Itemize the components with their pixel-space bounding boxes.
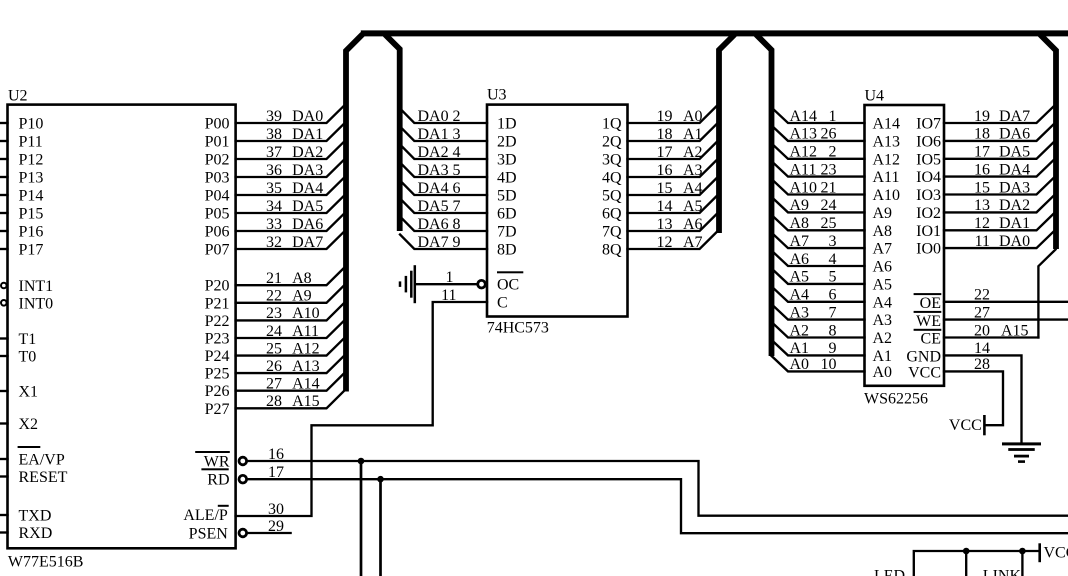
svg-text:A8: A8 (873, 223, 893, 240)
svg-text:28: 28 (266, 393, 282, 410)
svg-text:13: 13 (657, 216, 673, 233)
svg-text:WE: WE (916, 313, 941, 330)
svg-text:P27: P27 (205, 401, 230, 418)
svg-text:A4: A4 (683, 180, 703, 197)
U3 pin 1D / net DA0 from bus, pin 2 (400, 108, 517, 133)
U3 pin 2Q / net A1 wire to bus, pin 18 (602, 124, 717, 150)
svg-text:IO3: IO3 (916, 187, 941, 204)
svg-text:C: C (497, 295, 508, 312)
U2 pin P16 (0, 224, 43, 241)
svg-text:27: 27 (974, 304, 990, 321)
svg-text:1: 1 (446, 269, 454, 286)
svg-text:EA/VP: EA/VP (19, 452, 65, 469)
ground symbol at U3 OC (sideways) (399, 265, 416, 303)
svg-text:T0: T0 (19, 349, 37, 366)
svg-text:P10: P10 (19, 116, 44, 133)
U2 pin P00 / net DA0 wire to bus, pin 39 (205, 106, 344, 133)
U3 pin 7D / net DA6 from bus, pin 8 (400, 216, 517, 241)
svg-text:26: 26 (821, 126, 837, 143)
U4 pin IO7 / net DA7 wire to bus, pin 19 (916, 107, 1053, 133)
svg-text:A3: A3 (683, 162, 703, 179)
U4 pin CE (pin 20) / net A15 from data-bus drop (914, 322, 1039, 347)
U3 pin 8D / net DA7 from bus, pin 9 (400, 234, 517, 259)
svg-text:20: 20 (974, 322, 990, 339)
svg-text:P14: P14 (19, 188, 44, 205)
wire bus vertical right (DA bus into U3 inputs) (385, 34, 400, 231)
U3 pin 5Q / net A4 wire to bus, pin 15 (602, 178, 717, 204)
svg-text:RESET: RESET (19, 469, 68, 486)
svg-text:2Q: 2Q (602, 134, 622, 151)
svg-text:18: 18 (974, 126, 990, 143)
svg-text:3D: 3D (497, 152, 517, 169)
svg-text:A3: A3 (873, 312, 893, 329)
svg-text:23: 23 (266, 305, 282, 322)
wire bus vertical right of U3 outputs (719, 34, 735, 233)
svg-text:17: 17 (974, 144, 990, 161)
svg-text:A7: A7 (790, 233, 810, 250)
power VCC symbol bottom right (1038, 543, 1068, 562)
svg-text:PSEN: PSEN (189, 526, 229, 543)
svg-text:19: 19 (657, 108, 673, 125)
svg-text:1Q: 1Q (602, 116, 622, 133)
svg-text:A12: A12 (790, 144, 818, 161)
svg-text:VCC: VCC (908, 364, 941, 381)
svg-text:DA5: DA5 (418, 198, 449, 215)
mcu U2 W77E516B body (8, 88, 236, 571)
U3 pin 4Q / net A3 wire to bus, pin 16 (602, 160, 717, 186)
U3 pin 6Q / net A5 wire to bus, pin 14 (602, 196, 717, 222)
svg-text:X1: X1 (19, 384, 39, 401)
svg-text:28: 28 (974, 356, 990, 373)
svg-text:4D: 4D (497, 170, 517, 187)
U4 pin A8 from bus, pin 25 (772, 215, 893, 240)
svg-text:18: 18 (657, 126, 673, 143)
U2 pin P22 / net A10 wire to bus, pin 23 (205, 303, 344, 330)
svg-text:DA7: DA7 (999, 108, 1030, 125)
svg-text:P02: P02 (205, 152, 230, 169)
U4 pin IO3 / net DA3 wire to bus, pin 15 (916, 178, 1053, 204)
svg-text:DA2: DA2 (999, 197, 1030, 214)
U2 pin X2 (0, 416, 38, 433)
svg-text:DA6: DA6 (292, 216, 323, 233)
U4 pin A1 from bus, pin 9 (772, 340, 893, 365)
wire VCC rail for LED/LINK circuit (914, 551, 1039, 576)
svg-text:DA4: DA4 (418, 180, 449, 197)
U3 pin C (pin 11) label (497, 295, 508, 312)
svg-text:DA1: DA1 (292, 126, 323, 143)
U4 pin A7 from bus, pin 3 (772, 233, 893, 258)
U4 pin A14 from bus, pin 1 (772, 108, 901, 133)
svg-text:P07: P07 (205, 242, 230, 259)
U3 pin 3D / net DA2 from bus, pin 4 (400, 144, 517, 169)
svg-text:7: 7 (453, 198, 461, 215)
svg-text:P21: P21 (205, 295, 230, 312)
svg-text:5Q: 5Q (602, 188, 622, 205)
U2 pin P06 / net DA6 wire to bus, pin 33 (205, 214, 344, 241)
svg-text:A7: A7 (873, 241, 893, 258)
wire bus top horizontal (361, 30, 1068, 36)
U3 pin 4D / net DA3 from bus, pin 5 (400, 162, 517, 187)
svg-text:38: 38 (266, 126, 282, 143)
svg-text:A8: A8 (790, 215, 810, 232)
label LED (874, 568, 905, 576)
U2 pin P21 / net A9 wire to bus, pin 22 (205, 286, 344, 313)
svg-text:16: 16 (974, 161, 990, 178)
U4 pin A9 from bus, pin 24 (772, 197, 893, 222)
U2 pin P10 (0, 116, 43, 133)
U3 pin 6D / net DA5 from bus, pin 7 (400, 198, 517, 223)
U4 pin IO0 / net DA0 wire to bus, pin 11 (916, 232, 1053, 258)
junction on RD net (377, 476, 384, 576)
svg-text:8Q: 8Q (602, 242, 622, 259)
U3 pin 5D / net DA4 from bus, pin 6 (400, 180, 517, 205)
svg-text:P22: P22 (205, 313, 230, 330)
svg-text:IO5: IO5 (916, 151, 941, 168)
svg-text:IO0: IO0 (916, 241, 941, 258)
svg-text:12: 12 (657, 234, 673, 251)
U2 pin P25 / net A13 wire to bus, pin 26 (205, 356, 344, 383)
svg-text:A5: A5 (683, 198, 703, 215)
U2 pin RESET (0, 469, 68, 486)
U2 pin P20 / net A8 wire to bus, pin 21 (205, 268, 344, 295)
U2 pin P03 / net DA3 wire to bus, pin 36 (205, 160, 344, 187)
svg-text:21: 21 (821, 179, 837, 196)
U4 pin OE (pin 22) wire to right edge (914, 287, 1068, 312)
label LINK (983, 568, 1022, 576)
svg-text:OC: OC (497, 277, 519, 294)
U4 pin IO2 / net DA2 wire to bus, pin 13 (916, 196, 1053, 222)
svg-text:39: 39 (266, 108, 282, 125)
svg-text:A15: A15 (1001, 322, 1029, 339)
svg-text:30: 30 (268, 501, 284, 518)
U3 pin 2D / net DA1 from bus, pin 3 (400, 126, 517, 151)
svg-text:27: 27 (266, 376, 282, 393)
U2 pin T0 (0, 349, 36, 366)
U2 pin P27 / net A15 wire to bus, pin 28 (205, 391, 344, 418)
svg-text:32: 32 (266, 234, 282, 251)
svg-text:11: 11 (975, 233, 990, 250)
power VCC symbol at U4 pin 28 (949, 415, 986, 435)
svg-text:9: 9 (453, 234, 461, 251)
svg-text:INT0: INT0 (19, 295, 54, 312)
U4 pin GND (pin 14) wire to ground (906, 340, 1021, 443)
svg-text:P15: P15 (19, 206, 44, 223)
svg-text:IO4: IO4 (916, 169, 941, 186)
svg-text:15: 15 (657, 180, 673, 197)
svg-text:7Q: 7Q (602, 224, 622, 241)
svg-text:DA2: DA2 (292, 144, 323, 161)
U4 pin A12 from bus, pin 2 (772, 143, 901, 168)
svg-text:A10: A10 (790, 179, 818, 196)
svg-text:5: 5 (453, 162, 461, 179)
svg-text:A3: A3 (790, 304, 810, 321)
svg-text:A1: A1 (873, 348, 893, 365)
svg-text:22: 22 (974, 287, 990, 304)
svg-text:DA4: DA4 (999, 161, 1030, 178)
svg-text:T1: T1 (19, 331, 37, 348)
svg-text:DA6: DA6 (999, 126, 1030, 143)
svg-text:A13: A13 (292, 358, 320, 375)
U2 pin P12 (0, 152, 43, 169)
svg-text:A14: A14 (873, 116, 901, 133)
svg-text:14: 14 (657, 198, 673, 215)
wire net A15 from bus bottom to CE (1038, 250, 1055, 338)
svg-text:24: 24 (266, 323, 282, 340)
U2 pin P17 (0, 242, 43, 259)
svg-text:INT1: INT1 (19, 278, 54, 295)
U2 pin P15 (0, 206, 43, 223)
svg-text:P12: P12 (19, 152, 44, 169)
svg-text:1D: 1D (497, 116, 517, 133)
svg-text:OE: OE (920, 295, 941, 312)
svg-text:TXD: TXD (19, 508, 52, 525)
U4 pin IO5 / net DA5 wire to bus, pin 17 (916, 142, 1053, 168)
U4 pin A0 from bus, pin 10 (772, 356, 893, 381)
U4 pin A11 from bus, pin 23 (772, 161, 900, 186)
svg-text:A9: A9 (790, 197, 810, 214)
ground symbol at U4 GND (1002, 442, 1041, 463)
U4 pin A10 from bus, pin 21 (772, 179, 901, 204)
svg-text:A11: A11 (873, 169, 900, 186)
svg-text:DA0: DA0 (418, 108, 449, 125)
svg-text:P13: P13 (19, 170, 44, 187)
svg-text:DA7: DA7 (292, 234, 323, 251)
svg-text:A12: A12 (873, 151, 901, 168)
svg-text:A11: A11 (292, 323, 319, 340)
U2 pin X1 (0, 384, 38, 401)
U4 pin VCC (pin 28) wire to VCC stub (908, 356, 1003, 425)
svg-text:VCC: VCC (1044, 545, 1068, 562)
svg-text:U4: U4 (865, 88, 885, 105)
svg-text:2: 2 (829, 144, 837, 161)
svg-text:P17: P17 (19, 242, 44, 259)
svg-text:A13: A13 (873, 133, 901, 150)
U2 pin RXD (0, 525, 52, 542)
wire LED branch (963, 548, 970, 576)
svg-text:P11: P11 (19, 134, 43, 151)
svg-text:3: 3 (829, 233, 837, 250)
svg-text:DA4: DA4 (292, 180, 323, 197)
svg-text:3Q: 3Q (602, 152, 622, 169)
svg-text:P06: P06 (205, 224, 230, 241)
svg-text:5D: 5D (497, 188, 517, 205)
svg-text:A6: A6 (873, 259, 893, 276)
svg-text:19: 19 (974, 108, 990, 125)
svg-text:DA6: DA6 (418, 216, 449, 233)
svg-text:36: 36 (266, 162, 282, 179)
svg-text:A13: A13 (790, 126, 818, 143)
U2 pin P04 / net DA4 wire to bus, pin 35 (205, 178, 344, 205)
svg-text:DA0: DA0 (292, 108, 323, 125)
U2 pin P11 (0, 134, 43, 151)
U2 pin PSEN (pin 29) with bubble, stub (189, 518, 291, 543)
U3 pin 3Q / net A2 wire to bus, pin 17 (602, 142, 717, 168)
svg-text:ALE/P: ALE/P (183, 507, 228, 524)
svg-text:A7: A7 (683, 234, 703, 251)
svg-text:25: 25 (266, 340, 282, 357)
sram U4 WS62256 body (864, 88, 944, 408)
svg-text:P26: P26 (205, 383, 230, 400)
svg-text:A0: A0 (683, 108, 703, 125)
svg-text:A4: A4 (873, 294, 893, 311)
U2 pin P26 / net A14 wire to bus, pin 27 (205, 374, 344, 401)
wire bus vertical far right (data bus at U4 IO) (1040, 34, 1056, 249)
svg-text:17: 17 (657, 144, 673, 161)
svg-text:A10: A10 (292, 305, 320, 322)
svg-text:74HC573: 74HC573 (487, 320, 549, 337)
svg-text:A1: A1 (790, 340, 810, 357)
svg-text:DA1: DA1 (999, 215, 1030, 232)
U3 pin 1Q / net A0 wire to bus, pin 19 (602, 106, 717, 132)
U4 pin A5 from bus, pin 5 (772, 268, 893, 293)
svg-text:A5: A5 (790, 269, 810, 286)
svg-text:6Q: 6Q (602, 206, 622, 223)
svg-text:P01: P01 (205, 134, 230, 151)
svg-text:P16: P16 (19, 224, 44, 241)
svg-text:24: 24 (821, 197, 837, 214)
svg-text:22: 22 (266, 288, 282, 305)
svg-text:A6: A6 (790, 251, 810, 268)
svg-text:LINK: LINK (983, 568, 1022, 576)
U4 pin WE (pin 27) wire to right edge (914, 304, 1068, 329)
U4 pin IO4 / net DA4 wire to bus, pin 16 (916, 160, 1053, 186)
svg-text:IO1: IO1 (916, 223, 941, 240)
U4 pin A13 from bus, pin 26 (772, 125, 901, 150)
svg-text:25: 25 (821, 215, 837, 232)
svg-text:U3: U3 (487, 87, 507, 104)
U4 pin A3 from bus, pin 7 (772, 304, 893, 329)
svg-text:A11: A11 (790, 161, 817, 178)
svg-text:DA1: DA1 (418, 126, 449, 143)
svg-text:26: 26 (266, 358, 282, 375)
svg-text:VCC: VCC (949, 417, 982, 434)
wire bus vertical left of U3 (DA/addr bus from U2) (346, 34, 363, 391)
svg-text:A2: A2 (683, 144, 703, 161)
U2 pin TXD (0, 508, 51, 525)
U2 pin P02 / net DA2 wire to bus, pin 37 (205, 142, 344, 169)
svg-text:3: 3 (453, 126, 461, 143)
svg-text:16: 16 (657, 162, 673, 179)
U2 pin P07 / net DA7 wire to bus, pin 32 (205, 232, 344, 259)
svg-text:8: 8 (453, 216, 461, 233)
svg-text:9: 9 (829, 340, 837, 357)
svg-text:A2: A2 (790, 322, 810, 339)
svg-text:P00: P00 (205, 116, 230, 133)
svg-text:RXD: RXD (19, 525, 53, 542)
svg-text:21: 21 (266, 270, 282, 287)
U4 pin A4 from bus, pin 6 (772, 286, 893, 311)
svg-text:A0: A0 (873, 364, 893, 381)
svg-text:CE: CE (921, 331, 941, 348)
svg-text:17: 17 (268, 464, 284, 481)
svg-text:P05: P05 (205, 206, 230, 223)
U2 pin T1 (0, 331, 36, 348)
U2 pin INT0 (1, 295, 53, 312)
svg-text:A14: A14 (292, 376, 320, 393)
U4 pin IO6 / net DA6 wire to bus, pin 18 (916, 124, 1053, 150)
svg-text:P03: P03 (205, 170, 230, 187)
svg-text:U2: U2 (8, 88, 28, 105)
svg-text:12: 12 (974, 215, 990, 232)
svg-text:2D: 2D (497, 134, 517, 151)
svg-text:WR: WR (204, 454, 230, 471)
svg-text:23: 23 (821, 161, 837, 178)
svg-text:P23: P23 (205, 331, 230, 348)
U4 pin IO1 / net DA1 wire to bus, pin 12 (916, 214, 1053, 240)
svg-text:DA5: DA5 (292, 198, 323, 215)
svg-text:7D: 7D (497, 224, 517, 241)
svg-text:A15: A15 (292, 393, 320, 410)
svg-text:4Q: 4Q (602, 170, 622, 187)
wire LINK branch (1019, 548, 1026, 576)
svg-text:P04: P04 (205, 188, 230, 205)
svg-text:P20: P20 (205, 278, 230, 295)
U2 pin P05 / net DA5 wire to bus, pin 34 (205, 196, 344, 223)
svg-text:GND: GND (906, 348, 941, 365)
U2 pin ALE/P (pin 30), net routed to U3 pin C (11) (183, 287, 487, 524)
svg-text:X2: X2 (19, 416, 39, 433)
svg-text:5: 5 (829, 269, 837, 286)
svg-text:IO7: IO7 (916, 116, 941, 133)
U3 pin 7Q / net A6 wire to bus, pin 13 (602, 214, 717, 240)
svg-text:A5: A5 (873, 276, 893, 293)
svg-text:A1: A1 (683, 126, 703, 143)
svg-text:DA3: DA3 (418, 162, 449, 179)
svg-text:DA3: DA3 (999, 179, 1030, 196)
svg-text:A0: A0 (790, 356, 810, 373)
U2 pin INT1 (1, 278, 53, 295)
svg-text:1: 1 (829, 108, 837, 125)
U2 pin P14 (0, 188, 43, 205)
svg-text:4: 4 (829, 251, 837, 268)
U3 pin 8Q / net A7 wire to bus, pin 12 (602, 232, 717, 258)
svg-text:W77E516B: W77E516B (8, 554, 84, 571)
svg-text:LED: LED (874, 568, 905, 576)
U2 pin P01 / net DA1 wire to bus, pin 38 (205, 124, 344, 151)
U2 pin P24 / net A12 wire to bus, pin 25 (205, 339, 344, 366)
svg-text:13: 13 (974, 197, 990, 214)
svg-text:7: 7 (829, 304, 837, 321)
latch U3 74HC573 body (487, 87, 628, 337)
svg-text:34: 34 (266, 198, 282, 215)
svg-text:10: 10 (821, 356, 837, 373)
svg-text:16: 16 (268, 446, 284, 463)
svg-text:A10: A10 (873, 187, 901, 204)
svg-text:35: 35 (266, 180, 282, 197)
svg-text:A4: A4 (790, 287, 810, 304)
svg-text:P24: P24 (205, 348, 230, 365)
svg-text:DA5: DA5 (999, 144, 1030, 161)
svg-text:14: 14 (974, 340, 990, 357)
svg-text:A12: A12 (292, 340, 320, 357)
svg-text:A2: A2 (873, 330, 893, 347)
U2 pin P13 (0, 170, 43, 187)
U3 pin OC (pin 1) with bubble (416, 269, 523, 294)
svg-text:A9: A9 (292, 288, 312, 305)
svg-text:WS62256: WS62256 (864, 391, 928, 408)
svg-text:IO2: IO2 (916, 205, 941, 222)
U2 pin RD (pin 17) with bubble, net to lower right (201, 464, 1068, 533)
svg-text:6: 6 (829, 287, 837, 304)
svg-text:8: 8 (829, 322, 837, 339)
svg-text:DA0: DA0 (999, 233, 1030, 250)
svg-text:A9: A9 (873, 205, 893, 222)
svg-text:33: 33 (266, 216, 282, 233)
U4 pin A6 from bus, pin 4 (772, 251, 893, 276)
svg-text:4: 4 (453, 144, 461, 161)
svg-text:IO6: IO6 (916, 133, 941, 150)
U2 pin P23 / net A11 wire to bus, pin 24 (205, 321, 344, 348)
